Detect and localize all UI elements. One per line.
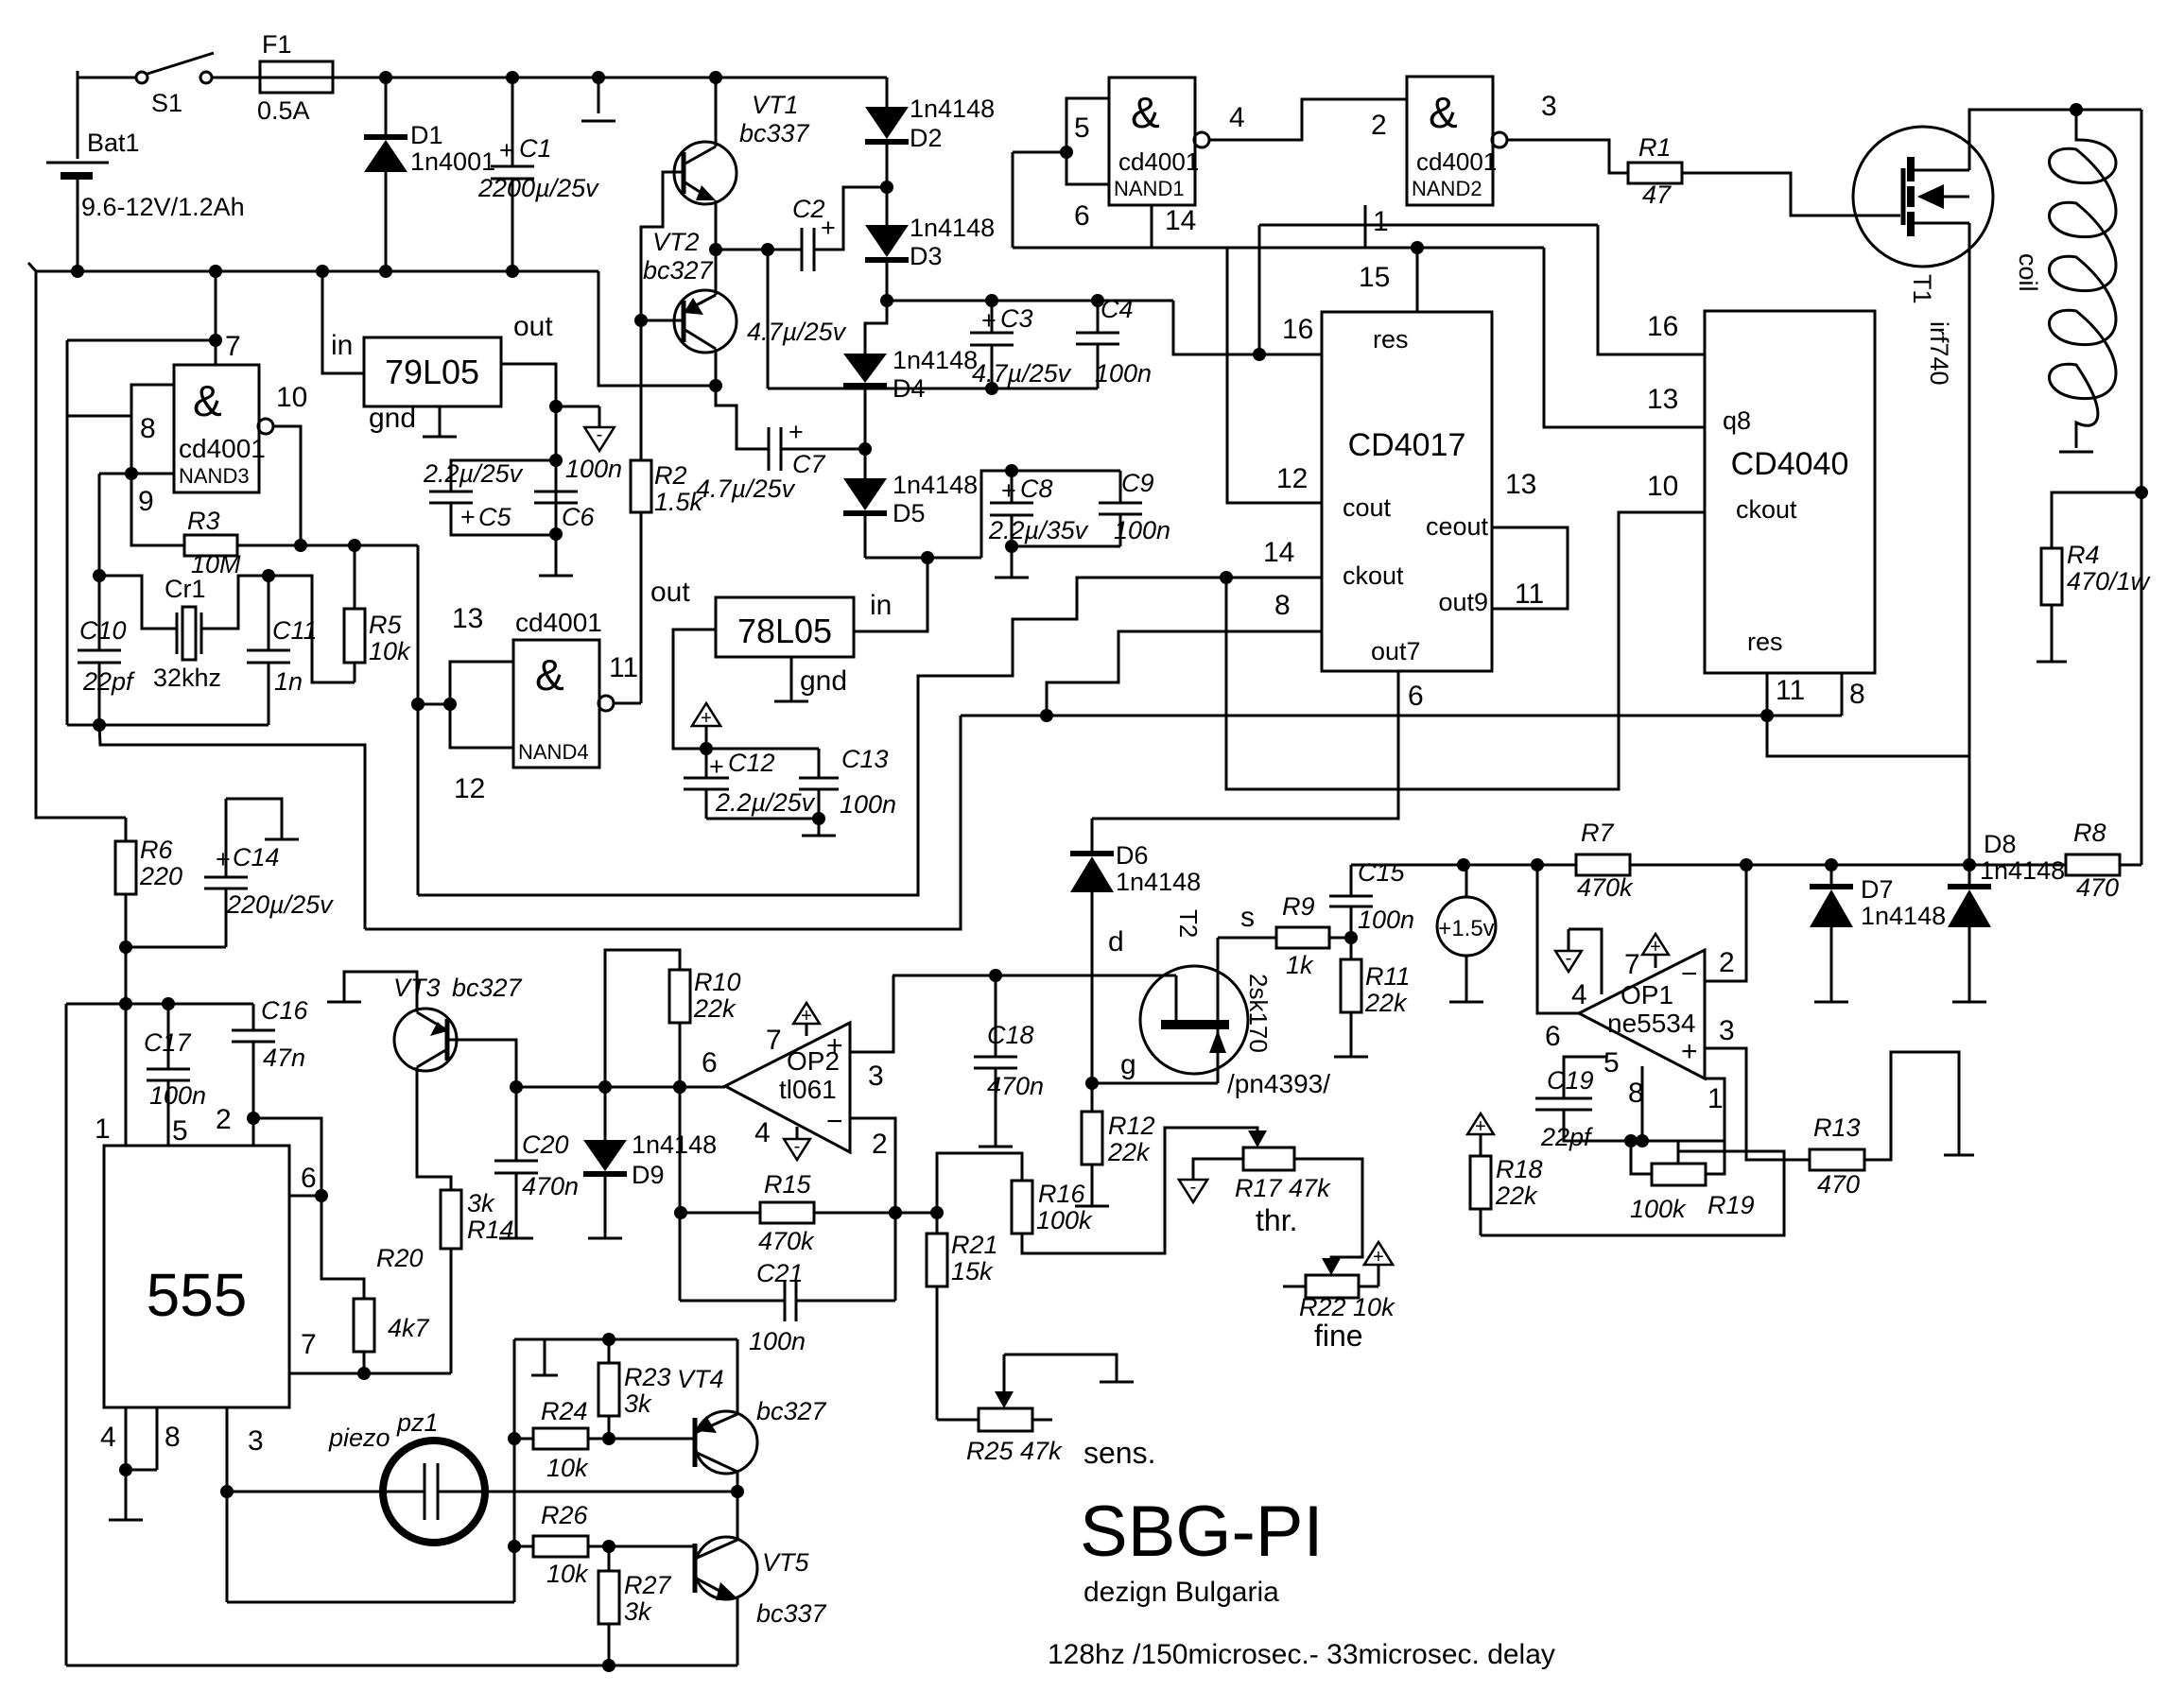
svg-text:out: out (513, 311, 553, 342)
capacitor C21 100n (680, 1300, 785, 1303)
svg-text:R11: R11 (1365, 962, 1411, 991)
svg-text:ne5534: ne5534 (1607, 1009, 1695, 1038)
svg-text:cout: cout (1343, 493, 1392, 522)
svg-text:1k: 1k (1286, 951, 1314, 979)
node (880, 294, 893, 307)
svg-text:2.2µ/25v: 2.2µ/25v (423, 459, 524, 488)
wire emitter to C2 (716, 249, 802, 251)
svg-text:ckout: ckout (1343, 561, 1404, 590)
wire R17 right to R22 wiper (1294, 1159, 1362, 1266)
svg-text:OP1: OP1 (1621, 980, 1673, 1009)
wire pin7 NAND3 (215, 271, 217, 365)
op-amp OP1 ne5534 (1579, 950, 1705, 1078)
svg-text:470k: 470k (758, 1227, 815, 1255)
wire 555 pins 4 8 (125, 1407, 128, 1470)
svg-text:in: in (331, 330, 353, 361)
wire net1 horizontal (1013, 247, 1544, 250)
svg-text:32khz: 32khz (153, 664, 221, 692)
svg-text:6: 6 (1074, 200, 1090, 232)
svg-text:2200µ/25v: 2200µ/25v (477, 174, 599, 202)
svg-text:8: 8 (1849, 679, 1865, 710)
wire crystal left node (99, 473, 131, 475)
svg-text:S1: S1 (151, 89, 182, 117)
resistor R4 470/1w (2052, 492, 2141, 548)
capacitor C3 (991, 301, 994, 333)
node (858, 442, 872, 456)
svg-text:R23: R23 (624, 1363, 671, 1391)
diode D7 1n4148 (1830, 865, 1833, 887)
wire VT3 base (447, 1040, 516, 1087)
svg-text:C15: C15 (1358, 858, 1406, 887)
svg-text:-: - (794, 1136, 801, 1157)
svg-text:R21: R21 (951, 1231, 998, 1259)
svg-text:220: 220 (139, 862, 182, 890)
wire net1 to pin5 (1012, 152, 1014, 248)
capacitor C6 (534, 491, 578, 493)
wire pin16 vertical from net (1258, 225, 1261, 354)
svg-text:D3: D3 (910, 242, 943, 270)
svg-text:-: - (597, 424, 603, 445)
svg-text:out7: out7 (1371, 637, 1421, 665)
resistor R6 220 (125, 818, 128, 841)
IC CD4017 (1322, 312, 1492, 671)
svg-text:R18: R18 (1496, 1155, 1543, 1183)
svg-text:CD4017: CD4017 (1348, 427, 1466, 463)
wire 555 pin7 row (289, 1372, 451, 1375)
regulator 78L05 (716, 597, 854, 657)
svg-text:pz1: pz1 (396, 1408, 439, 1437)
capacitor C18 470n (995, 975, 997, 1057)
wire long rail (961, 715, 1842, 717)
wire OP2 pin2 (850, 1118, 895, 1301)
wire to CD4040 pin16 (1598, 225, 1705, 354)
svg-text:C5: C5 (478, 503, 511, 531)
wire R22 right to plus (1359, 1286, 1378, 1288)
wire OP1 pin8 (1641, 1066, 1644, 1141)
svg-text:4: 4 (1229, 102, 1245, 133)
svg-text:C7: C7 (792, 450, 825, 478)
svg-text:C3: C3 (1000, 304, 1033, 333)
svg-text:C12: C12 (728, 749, 775, 777)
capacitor C4 (1097, 301, 1100, 333)
resistor R11 22k (1350, 938, 1353, 959)
svg-text:R27: R27 (624, 1571, 672, 1599)
svg-text:C21: C21 (756, 1259, 804, 1287)
wire (212, 77, 260, 79)
resistor R20 4k7 (321, 1196, 364, 1299)
svg-text:7: 7 (1624, 949, 1640, 980)
svg-text:8: 8 (140, 413, 156, 444)
svg-text:6: 6 (301, 1163, 317, 1194)
svg-text:2.2µ/25v: 2.2µ/25v (715, 788, 816, 817)
svg-text:13: 13 (1647, 384, 1678, 415)
wire rail left end down (365, 716, 961, 929)
svg-text:5: 5 (172, 1115, 188, 1147)
svg-text:gnd: gnd (369, 403, 416, 434)
svg-text:cd4001: cd4001 (1416, 147, 1497, 176)
svg-text:NAND4: NAND4 (518, 740, 589, 764)
wire NAND4 out to R2 (614, 702, 641, 705)
wire D3 to C3/C4 top (887, 300, 1173, 302)
svg-text:3: 3 (1541, 91, 1557, 122)
wire T2 source to R9 (1218, 937, 1276, 940)
wire net y238 (1259, 224, 1598, 227)
capacitor C14 (226, 799, 282, 839)
svg-text:1n4001: 1n4001 (410, 147, 495, 176)
svg-text:22k: 22k (1495, 1182, 1538, 1210)
svg-text:R8: R8 (2073, 819, 2106, 847)
svg-text:22k: 22k (1107, 1138, 1151, 1166)
svg-text:VT2: VT2 (652, 228, 700, 256)
resistor R23 3k (608, 1339, 611, 1363)
wire NAND3 out down (273, 426, 301, 545)
svg-text:&: & (1429, 88, 1458, 137)
wire to 78L05 in (854, 558, 927, 631)
capacitor C2 (801, 228, 804, 271)
svg-text:12: 12 (454, 773, 485, 804)
svg-text:−: − (826, 1106, 843, 1137)
svg-text:10: 10 (276, 382, 307, 413)
svg-text:g: g (1120, 1049, 1136, 1080)
capacitor C17 100n (167, 1004, 170, 1069)
svg-text:1n4148: 1n4148 (910, 95, 995, 123)
wire pin8 tie (67, 415, 131, 418)
capacitor C16 47n (252, 1004, 255, 1030)
node (379, 71, 392, 84)
svg-text:22k: 22k (1364, 989, 1408, 1017)
svg-text:in: in (870, 590, 892, 621)
diode D8 1n4148 (1948, 884, 1991, 889)
svg-text:dezign Bulgaria: dezign Bulgaria (1083, 1577, 1279, 1608)
svg-text:11: 11 (1776, 675, 1805, 706)
op-amp OP2 tl061 (725, 1023, 850, 1152)
svg-text:R10: R10 (694, 968, 741, 996)
wire res net to T1 source (1767, 716, 1969, 756)
svg-text:cd4001: cd4001 (179, 434, 266, 463)
diode D3 1n4148 (886, 187, 889, 225)
node (880, 181, 893, 194)
svg-text:11: 11 (1515, 578, 1544, 610)
wire CD4017 pin8 (1047, 631, 1322, 716)
svg-text:VT1: VT1 (752, 91, 799, 119)
svg-text:C8: C8 (1020, 475, 1053, 503)
svg-text:bc337: bc337 (739, 119, 810, 147)
svg-text:10k: 10k (369, 637, 411, 665)
resistor R26 10k (514, 1545, 533, 1548)
svg-text:CD4040: CD4040 (1731, 446, 1849, 482)
wire pin13 net to ckout staircase (418, 578, 1226, 895)
svg-text:bc327: bc327 (452, 974, 523, 1002)
svg-text:13: 13 (452, 603, 483, 634)
ground coil (2059, 451, 2093, 454)
pot R25 47k (937, 1419, 979, 1422)
IC CD4040 (1705, 311, 1875, 673)
wire net1 to CD4017 pin15 (1416, 248, 1419, 312)
capacitor C7 (768, 427, 771, 471)
svg-text:out: out (650, 577, 690, 608)
capacitor C10 22pf (98, 576, 101, 650)
svg-text:12: 12 (1276, 463, 1308, 494)
svg-text:7: 7 (225, 331, 241, 362)
svg-text:100n: 100n (1114, 516, 1170, 544)
svg-text:&: & (1131, 88, 1160, 137)
battery Bat1 (77, 71, 79, 159)
nand gate NAND3 cd4001 (174, 365, 259, 492)
node (71, 265, 84, 278)
diode D6 1n4148 (1091, 819, 1094, 854)
resistor R8 470 (2120, 864, 2141, 867)
svg-text:470: 470 (1817, 1170, 1860, 1199)
capacitor C9 (1119, 471, 1122, 503)
svg-text:1n4148: 1n4148 (910, 214, 995, 242)
pin 5/6 loop NAND1 (1066, 98, 1109, 184)
wire gnd pin (790, 657, 793, 701)
svg-text:7: 7 (301, 1329, 317, 1360)
nand gate NAND2 cd4001 (1407, 77, 1493, 205)
capacitor C5 (451, 460, 556, 492)
svg-text:5: 5 (1603, 1047, 1620, 1078)
svg-text:470n: 470n (522, 1172, 579, 1200)
diode D5 1n4148 (864, 388, 867, 449)
svg-text:NAND1: NAND1 (1114, 177, 1185, 200)
svg-text:bc337: bc337 (756, 1599, 827, 1628)
svg-text:R24: R24 (541, 1397, 588, 1425)
svg-text:+: + (499, 136, 514, 164)
svg-text:22pf: 22pf (82, 667, 135, 696)
wire VT3 collector to R14 (417, 1067, 451, 1190)
resistor R2 1.5k (640, 320, 643, 460)
svg-text:C11: C11 (272, 616, 318, 645)
svg-text:470/1w: 470/1w (2067, 567, 2151, 595)
svg-text:C4: C4 (1101, 295, 1134, 323)
wire R13 to ground loop (1864, 1052, 1959, 1160)
svg-text:coil: coil (2014, 253, 2042, 292)
wire feedback column (679, 1087, 682, 1301)
svg-text:piezo: piezo (328, 1424, 390, 1452)
fuse F1 (260, 61, 333, 93)
wire T2 drain (893, 975, 1176, 977)
wire emitter/R23 row (514, 1338, 737, 1341)
capacitor C12 (705, 749, 708, 778)
transistor VT3 bc327 (394, 1009, 457, 1071)
resistor R13 470 (1810, 1149, 1864, 1170)
svg-text:C18: C18 (987, 1021, 1034, 1049)
capacitor C11 1n (268, 576, 270, 650)
svg-text:15: 15 (1359, 262, 1390, 293)
transistor VT4 bc327 (695, 1411, 757, 1474)
svg-text:4.7µ/25v: 4.7µ/25v (972, 359, 1072, 388)
svg-text:+: + (826, 1030, 843, 1061)
svg-text:22pf: 22pf (1540, 1123, 1593, 1151)
svg-text:R1: R1 (1638, 133, 1672, 162)
wire C16 bottom to 555 pin2 and pin6 (252, 1118, 255, 1146)
pot R22 10k (1306, 1275, 1359, 1298)
wire OP2 pin3 (850, 975, 893, 1052)
svg-text:R22 10k: R22 10k (1299, 1293, 1395, 1321)
supply minus marker (556, 405, 599, 408)
svg-text:5: 5 (1074, 112, 1090, 144)
svg-text:3k: 3k (624, 1389, 652, 1418)
svg-text:Bat1: Bat1 (87, 129, 140, 157)
svg-text:R2: R2 (654, 461, 687, 490)
resistor R12 22k (1091, 1083, 1094, 1112)
svg-text:0.5A: 0.5A (257, 96, 310, 125)
svg-text:79L05: 79L05 (385, 353, 479, 391)
diode D2 1n4148 (886, 78, 889, 107)
wire pin7 net left (67, 339, 216, 342)
svg-text:4: 4 (100, 1422, 116, 1453)
wire ckout branch to CD4040 pin10 (1226, 512, 1705, 789)
resistor R3 10M (131, 474, 184, 545)
resistor R7 470k (1576, 854, 1630, 875)
wire NAND2 pin1 (1364, 205, 1367, 248)
wire out7 pin6 to D6 (1092, 671, 1398, 819)
node VT2 base (634, 314, 648, 327)
wire CD4017 pin14 ckout (1226, 577, 1322, 579)
svg-text:100n: 100n (1358, 906, 1414, 934)
svg-text:&: & (193, 376, 222, 425)
svg-text:R7: R7 (1581, 819, 1614, 847)
svg-text:10k: 10k (546, 1560, 589, 1588)
capacitor C13 (818, 749, 821, 778)
wire D4 bottom row (768, 388, 1098, 390)
svg-text:1n: 1n (274, 667, 303, 696)
svg-text:ckout: ckout (1736, 495, 1797, 524)
wire bottom bus (66, 1665, 737, 1667)
wire ceout/out9 loop pins 13 11 (1492, 527, 1568, 609)
svg-text:D1: D1 (410, 121, 443, 149)
svg-text:1.5k: 1.5k (654, 488, 704, 516)
wire VT2 emitter to C7 (716, 386, 769, 449)
svg-text:irf740: irf740 (1925, 321, 1953, 386)
svg-text:bc327: bc327 (643, 256, 714, 285)
resistor R9 1k (1276, 927, 1329, 948)
wire OP1 pin2 (1705, 865, 1746, 981)
svg-text:78L05: 78L05 (737, 612, 832, 650)
svg-text:+: + (801, 1006, 812, 1027)
svg-text:100n: 100n (1095, 359, 1152, 388)
capacitor C8 (1011, 471, 1014, 503)
svg-text:D5: D5 (893, 499, 926, 527)
svg-text:+: + (701, 708, 712, 729)
pin8 loop NAND3 (131, 385, 174, 474)
wire NAND1 out pin4 to NAND2 (1209, 99, 1407, 140)
svg-text:D9: D9 (632, 1161, 665, 1189)
wire R1 to T1 gate (1682, 173, 1900, 216)
wire 555 pin1 (125, 1004, 128, 1146)
nand gate NAND4 cd4001 (513, 640, 599, 768)
svg-text:C20: C20 (522, 1130, 569, 1159)
pot R17 47k (1243, 1147, 1294, 1170)
wire crystal right to R5 bottom (269, 576, 355, 682)
svg-text:R5: R5 (369, 611, 402, 639)
svg-text:R20: R20 (376, 1244, 424, 1272)
svg-text:470n: 470n (987, 1072, 1044, 1100)
ground stub (544, 1339, 546, 1375)
supply minus OP1 pin4 (1555, 951, 1582, 972)
svg-text:+: + (821, 214, 836, 242)
wire analog rail (1351, 864, 1576, 867)
svg-text:q8: q8 (1723, 406, 1751, 435)
wire rail to VT2 emitter (598, 271, 716, 386)
svg-text:3: 3 (868, 1061, 884, 1092)
svg-text:R16: R16 (1038, 1180, 1086, 1208)
wire T1 source down (1968, 223, 1971, 887)
pin13/12 loop NAND4 (450, 662, 513, 748)
svg-text:100n: 100n (749, 1327, 806, 1355)
svg-text:R13: R13 (1813, 1113, 1861, 1142)
svg-text:R26: R26 (541, 1501, 589, 1529)
wire R16 bottom to R17 wiper (1022, 1128, 1257, 1253)
wire net1 to CD4040 pin13 q8 (1544, 248, 1705, 427)
wire left bus (36, 271, 126, 818)
svg-text:10k: 10k (546, 1454, 589, 1482)
svg-text:R19: R19 (1707, 1191, 1755, 1219)
svg-text:d: d (1108, 926, 1124, 958)
svg-text:4: 4 (1571, 979, 1587, 1010)
svg-text:4.7µ/25v: 4.7µ/25v (747, 318, 847, 346)
wire right edge (2141, 110, 2143, 865)
svg-text:R17 47k: R17 47k (1235, 1174, 1331, 1202)
svg-text:1: 1 (1373, 206, 1389, 237)
svg-text:1n4148: 1n4148 (632, 1130, 717, 1159)
svg-text:1n4148: 1n4148 (893, 471, 978, 499)
svg-text:220µ/25v: 220µ/25v (226, 890, 334, 919)
wire OP1 pin3 to R13 (1705, 1048, 1810, 1160)
regulator 79L05 (364, 337, 501, 406)
svg-text:2sk170: 2sk170 (1244, 974, 1273, 1053)
node pin13 (443, 698, 457, 711)
svg-text:470k: 470k (1577, 873, 1634, 902)
switch S1 (136, 72, 147, 83)
resistor R10 22k (605, 950, 680, 1087)
wire VT3 emitter to gnd (344, 972, 417, 1012)
wire bottom net to rail corner (99, 725, 365, 929)
transistor VT5 bc337 (695, 1537, 757, 1599)
wire NAND1 pin14 (1151, 205, 1153, 248)
wire C2 to D2/D3 node (814, 187, 887, 250)
svg-text:R6: R6 (140, 836, 173, 864)
wire (78, 77, 136, 79)
svg-text:+: + (789, 418, 804, 446)
wire NAND2 out to R1 (1507, 140, 1628, 173)
diode D9 1n4148 (604, 1087, 607, 1140)
node VT1 emitter (709, 243, 722, 256)
node pin5 input (1060, 146, 1073, 159)
svg-text:R4: R4 (2067, 541, 2100, 569)
svg-text:/pn4393/: /pn4393/ (1227, 1069, 1330, 1098)
svg-text:+: + (1475, 1116, 1486, 1137)
resistor R21 15k (936, 1213, 939, 1234)
capacitor C20 470n (515, 1087, 518, 1161)
svg-text:&: & (535, 650, 564, 699)
transistor VT1 bc337 (674, 142, 737, 204)
svg-text:T2: T2 (1174, 909, 1203, 938)
svg-text:22k: 22k (693, 994, 737, 1023)
svg-text:100n: 100n (149, 1081, 206, 1110)
resistor R14 3k (441, 1190, 461, 1249)
svg-text:+: + (1681, 1036, 1698, 1067)
svg-text:6: 6 (1408, 681, 1424, 712)
resistor R1 (1628, 163, 1682, 183)
svg-text:SBG-PI: SBG-PI (1080, 1492, 1324, 1572)
svg-text:3k: 3k (624, 1597, 652, 1626)
svg-text:100k: 100k (1036, 1206, 1093, 1234)
svg-text:C16: C16 (261, 996, 309, 1025)
svg-text:100n: 100n (840, 790, 896, 819)
svg-text:s: s (1240, 902, 1255, 933)
svg-text:D2: D2 (910, 124, 943, 152)
